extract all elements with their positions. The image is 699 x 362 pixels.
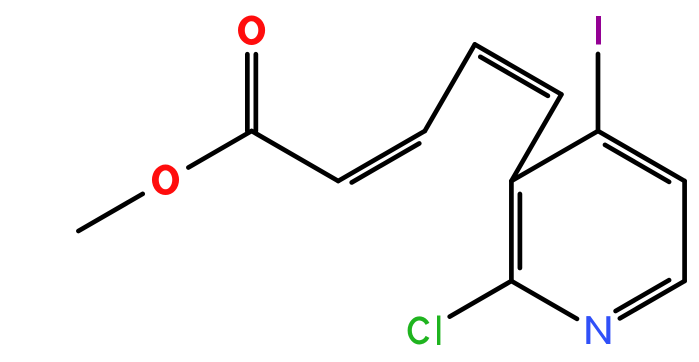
wire: bond C5-ring [511,94,561,181]
wire: ring bond C5-C6 right edge [682,181,687,281]
wire: aromatic inner line C4=C5 ring [605,145,669,182]
wire: bond C1-C2alpha [252,131,339,181]
node I iodine label [596,16,601,45]
wire: bond CH3-O ester methyl [78,194,142,231]
wire: aromatic inner line C2=C3 ring [518,194,523,268]
wire: double bond C1=O carbonyl [245,54,250,131]
node O ester oxygen label [152,165,179,196]
wire: ring bond C6-N [620,281,685,318]
wire: bond C4-I [596,54,601,131]
wire: ring bond C3-C4 top-left edge [511,131,598,181]
wire: double bond C4=C5 chain (Z) [475,44,562,94]
node Cl chlorine label [410,318,428,342]
wire: double bond C2=C3 chain (E) [338,131,425,181]
wire: bond C2-Cl [450,281,512,317]
wire: ring bond C2-C3 left edge [509,181,514,281]
wire: bond C3-C4 chain [425,44,475,131]
node N pyridine nitrogen label [586,316,590,344]
wire: bond O-C1 ester [188,131,251,168]
node O carbonyl oxygen label [238,15,265,45]
wire: aromatic inner line N=C6 ring [616,280,669,311]
wire: ring bond C2-N [511,281,577,319]
wire: ring bond C4-C5 top-right edge [598,131,685,181]
